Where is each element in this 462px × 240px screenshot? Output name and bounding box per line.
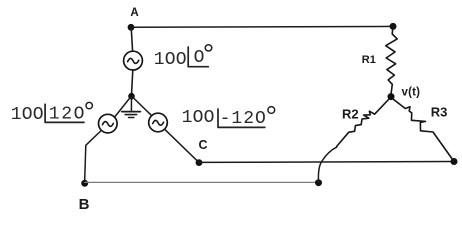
node v(t) xyxy=(388,86,421,100)
svg-text:O: O xyxy=(194,48,205,68)
resistor R3 xyxy=(393,99,454,162)
node junction bottom middle xyxy=(315,179,322,186)
svg-text:12O: 12O xyxy=(49,105,86,125)
wire C to R3 bottom (horizontal) xyxy=(199,161,454,164)
node C xyxy=(196,138,208,166)
wire B bottom horizontal xyxy=(85,181,319,183)
wire top A to R1 xyxy=(131,25,393,28)
ac source V2 (100 angle 120) xyxy=(99,114,118,133)
svg-text:-12O: -12O xyxy=(220,109,267,129)
svg-text:1OO: 1OO xyxy=(154,50,187,70)
svg-text:C: C xyxy=(199,138,208,152)
svg-text:v(t): v(t) xyxy=(402,86,421,98)
svg-text:1OO: 1OO xyxy=(11,105,44,125)
svg-text:R1: R1 xyxy=(362,54,376,66)
ground xyxy=(122,96,141,117)
wire V2 to node B xyxy=(85,131,102,184)
label 100 angle 0 deg xyxy=(154,45,212,70)
svg-text:R3: R3 xyxy=(431,104,448,119)
ac source V1 (100 angle 0) xyxy=(124,51,143,70)
svg-text:R2: R2 xyxy=(342,106,359,121)
node top right xyxy=(390,23,397,30)
node bottom right xyxy=(451,158,458,165)
wire A down to source V1 xyxy=(131,27,132,51)
wire neutral to source V3 xyxy=(133,98,152,116)
resistor R1 xyxy=(362,26,397,96)
label 100 angle 120 deg xyxy=(11,102,93,124)
node B xyxy=(79,180,90,213)
wire junction up to R2 xyxy=(318,147,336,183)
wire V1 to neutral xyxy=(132,70,133,93)
resistor R2 xyxy=(337,99,390,147)
label 100 angle -120 deg xyxy=(182,107,275,130)
svg-text:A: A xyxy=(130,7,138,19)
wire neutral to source V2 xyxy=(115,98,131,118)
node A xyxy=(128,7,139,31)
node neutral xyxy=(128,93,135,100)
ac source V3 (100 angle -120) xyxy=(149,113,168,132)
wire V3 to node C xyxy=(165,129,199,162)
svg-text:1OO: 1OO xyxy=(182,108,215,128)
svg-text:B: B xyxy=(79,196,90,211)
